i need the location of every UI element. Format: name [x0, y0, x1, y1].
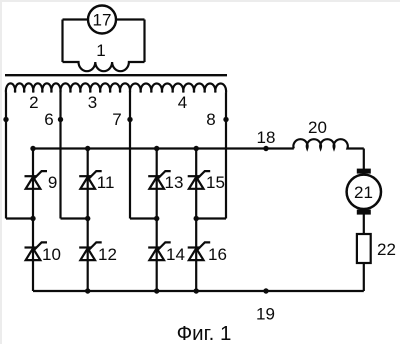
svg-text:6: 6 — [44, 110, 53, 129]
svg-text:Фиг. 1: Фиг. 1 — [177, 322, 232, 344]
svg-text:4: 4 — [178, 93, 187, 112]
svg-text:15: 15 — [206, 173, 225, 192]
svg-text:9: 9 — [48, 173, 57, 192]
svg-text:16: 16 — [208, 245, 227, 264]
svg-text:8: 8 — [206, 110, 215, 129]
svg-text:12: 12 — [98, 245, 117, 264]
svg-text:21: 21 — [354, 183, 373, 202]
svg-text:11: 11 — [97, 173, 115, 192]
svg-text:20: 20 — [308, 118, 327, 137]
svg-text:1: 1 — [96, 41, 105, 60]
svg-text:17: 17 — [93, 11, 112, 30]
svg-text:13: 13 — [165, 173, 184, 192]
svg-text:3: 3 — [88, 93, 97, 112]
svg-text:19: 19 — [256, 305, 275, 324]
svg-text:10: 10 — [42, 245, 61, 264]
svg-text:18: 18 — [257, 128, 276, 147]
svg-text:22: 22 — [377, 240, 396, 259]
svg-text:14: 14 — [166, 245, 185, 264]
svg-text:7: 7 — [112, 110, 121, 129]
svg-text:2: 2 — [29, 93, 38, 112]
